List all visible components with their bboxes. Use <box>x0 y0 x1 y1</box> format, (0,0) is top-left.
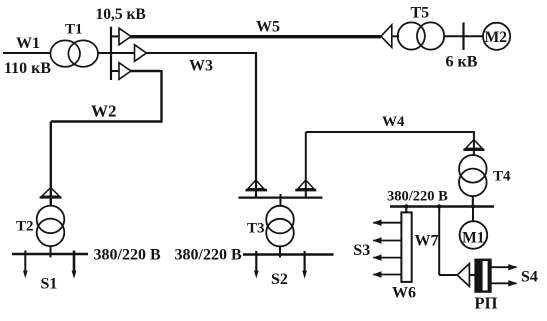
svg-text:М2: М2 <box>485 29 508 46</box>
svg-text:Т5: Т5 <box>411 5 430 22</box>
svg-text:6 кВ: 6 кВ <box>446 53 478 70</box>
svg-text:М1: М1 <box>462 230 484 247</box>
svg-text:W6: W6 <box>392 285 416 302</box>
svg-text:W1: W1 <box>16 35 40 52</box>
svg-text:S1: S1 <box>41 276 58 293</box>
svg-text:Т1: Т1 <box>65 22 83 38</box>
svg-text:W4: W4 <box>382 114 405 130</box>
svg-text:W7: W7 <box>415 233 439 250</box>
svg-text:S4: S4 <box>521 268 538 285</box>
svg-text:380/220 В: 380/220 В <box>94 247 161 264</box>
svg-text:Т4: Т4 <box>493 169 511 185</box>
svg-text:Т3: Т3 <box>247 221 265 237</box>
svg-text:РП: РП <box>475 294 498 313</box>
svg-text:10,5 кВ: 10,5 кВ <box>96 6 146 23</box>
svg-text:Т2: Т2 <box>16 219 34 235</box>
svg-text:380/220 В: 380/220 В <box>387 188 448 204</box>
svg-text:W5: W5 <box>256 19 280 36</box>
svg-text:S2: S2 <box>271 271 288 288</box>
svg-text:W2: W2 <box>91 102 117 121</box>
svg-text:380/220 В: 380/220 В <box>175 247 242 264</box>
svg-text:W3: W3 <box>189 58 213 75</box>
svg-text:S3: S3 <box>353 242 370 259</box>
svg-text:110 кВ: 110 кВ <box>4 60 51 77</box>
